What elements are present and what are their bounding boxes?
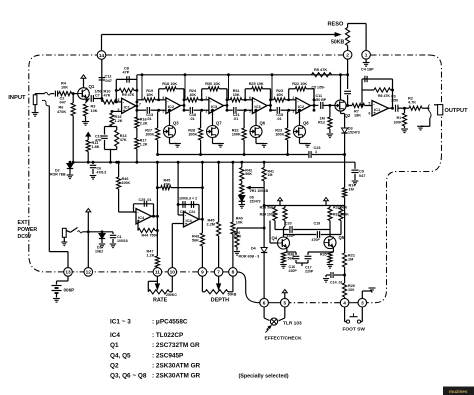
svg-text:220P: 220P — [305, 270, 314, 274]
svg-text:R8 47K: R8 47K — [378, 94, 390, 98]
svg-text:C19: C19 — [314, 222, 321, 226]
svg-text:Q6: Q6 — [260, 120, 266, 125]
svg-text:470P: 470P — [312, 238, 321, 242]
svg-text:14: 14 — [99, 53, 105, 59]
svg-text:DEPTH: DEPTH — [211, 297, 229, 303]
svg-text:R34 100K: R34 100K — [260, 213, 276, 217]
svg-text:2: 2 — [346, 53, 349, 59]
svg-text:3: 3 — [293, 109, 295, 113]
svg-text:Q3: Q3 — [173, 120, 179, 125]
svg-text:1.8K: 1.8K — [92, 145, 100, 149]
svg-text:1M: 1M — [268, 173, 273, 177]
svg-text:12: 12 — [86, 270, 92, 276]
svg-text:3: 3 — [361, 301, 364, 307]
svg-text:EFFECT/CHECK: EFFECT/CHECK — [265, 336, 303, 342]
svg-text:047: 047 — [60, 101, 66, 105]
svg-text:R25 10K: R25 10K — [249, 82, 264, 86]
svg-text:: 2SC732TM GR: : 2SC732TM GR — [152, 342, 200, 349]
svg-text:(Specially selected): (Specially selected) — [239, 374, 289, 380]
svg-text:R18 10K: R18 10K — [162, 82, 177, 86]
svg-text:.01: .01 — [190, 117, 195, 121]
svg-text:FOOT SW: FOOT SW — [343, 327, 366, 333]
svg-text:EXT: EXT — [18, 220, 29, 226]
svg-text:INPUT: INPUT — [8, 95, 26, 101]
svg-text:100K: 100K — [145, 133, 154, 137]
svg-text:47K: 47K — [104, 93, 111, 97]
svg-text:8: 8 — [232, 270, 235, 276]
svg-text:muzines: muzines — [449, 389, 468, 394]
svg-text:47K: 47K — [120, 138, 127, 142]
svg-text:+: + — [123, 108, 126, 113]
svg-text:C7: C7 — [95, 93, 100, 97]
svg-text:R22 10K: R22 10K — [292, 82, 307, 86]
svg-text:R44: R44 — [142, 234, 149, 238]
svg-text:4: 4 — [343, 301, 346, 307]
svg-text:10K: 10K — [91, 109, 98, 113]
svg-text:56K: 56K — [245, 172, 252, 176]
svg-text:10K: 10K — [146, 93, 153, 97]
svg-text:100K: 100K — [122, 181, 131, 185]
svg-text:+: + — [185, 221, 188, 226]
svg-text:10K: 10K — [189, 93, 196, 97]
svg-text:VR1 100KB: VR1 100KB — [250, 189, 269, 193]
svg-text:47K: 47K — [164, 183, 171, 187]
svg-text:1/50 BP: 1/50 BP — [314, 98, 327, 102]
svg-text:2.2K: 2.2K — [140, 121, 148, 125]
svg-text:220P: 220P — [289, 269, 298, 273]
svg-text:IC1 ~ 3: IC1 ~ 3 — [110, 319, 131, 326]
svg-text:Q3, Q6 ~ Q8: Q3, Q6 ~ Q8 — [110, 373, 147, 380]
svg-text:.01: .01 — [277, 117, 282, 121]
svg-text:: 2SC945P: : 2SC945P — [152, 353, 184, 360]
svg-text:ROR 60B - 3: ROR 60B - 3 — [239, 255, 260, 259]
svg-text:R33 100K: R33 100K — [333, 213, 349, 217]
svg-text:Q8: Q8 — [303, 120, 309, 125]
svg-text:Q5: Q5 — [339, 235, 345, 240]
svg-text:10K: 10K — [233, 93, 240, 97]
svg-text:152473: 152473 — [348, 131, 360, 135]
svg-text:IC4: IC4 — [110, 332, 120, 339]
svg-text:6: 6 — [263, 301, 266, 307]
svg-text:ROR 7EB - 3: ROR 7EB - 3 — [50, 173, 71, 177]
svg-text:RATE: RATE — [153, 297, 168, 303]
svg-text:1: 1 — [315, 150, 317, 154]
svg-text:: TL022CP: : TL022CP — [152, 332, 184, 339]
svg-text:C20: C20 — [285, 222, 292, 226]
svg-text:Q2: Q2 — [345, 113, 351, 118]
svg-text:1.2K: 1.2K — [147, 254, 155, 258]
svg-text:18K: 18K — [354, 114, 361, 118]
svg-text:.01: .01 — [233, 117, 238, 121]
svg-text:13: 13 — [65, 270, 71, 276]
svg-text:C23: C23 — [180, 210, 186, 214]
svg-text:R9 47K: R9 47K — [122, 93, 135, 97]
svg-text:10E2: 10E2 — [95, 250, 103, 254]
svg-text:10K: 10K — [61, 86, 68, 90]
svg-text:RESO: RESO — [328, 21, 345, 27]
svg-text:Q2: Q2 — [110, 363, 119, 370]
svg-text:4.7K: 4.7K — [408, 100, 416, 104]
svg-text:7: 7 — [217, 270, 220, 276]
svg-text:.047: .047 — [105, 79, 112, 83]
svg-text:9: 9 — [201, 270, 204, 276]
svg-text:10K: 10K — [236, 220, 243, 224]
svg-text:1/50: 1/50 — [391, 99, 398, 103]
svg-text:R12: R12 — [318, 121, 325, 125]
svg-text:2: 2 — [206, 96, 208, 100]
svg-text:+: + — [373, 110, 376, 115]
svg-text:Q4: Q4 — [272, 236, 278, 241]
svg-text:C24: C24 — [189, 210, 195, 214]
svg-text:R1: R1 — [397, 116, 402, 120]
svg-text:2.2M: 2.2M — [207, 223, 215, 227]
svg-text:047: 047 — [359, 174, 365, 178]
svg-text:5: 5 — [163, 109, 165, 113]
svg-text:Q1: Q1 — [110, 342, 119, 349]
svg-text:3: 3 — [206, 109, 208, 113]
svg-text:Q4, Q5: Q4, Q5 — [110, 353, 131, 360]
svg-text:OUTPUT: OUTPUT — [445, 108, 469, 114]
svg-text:1.2K: 1.2K — [115, 119, 123, 123]
svg-text:5: 5 — [118, 108, 120, 112]
svg-text:C14 .01: C14 .01 — [330, 281, 343, 285]
svg-text:47/6.3: 47/6.3 — [97, 171, 107, 175]
svg-text:Q7: Q7 — [216, 120, 222, 125]
svg-text:50KB: 50KB — [331, 40, 345, 46]
svg-text:C4 18P: C4 18P — [361, 68, 374, 72]
svg-text:1M: 1M — [348, 258, 353, 262]
svg-text:R35: R35 — [320, 253, 327, 257]
svg-text:470K: 470K — [57, 110, 66, 114]
svg-text:7: 7 — [139, 102, 141, 106]
svg-text:1.2K: 1.2K — [140, 142, 148, 146]
svg-text:152473: 152473 — [250, 199, 261, 203]
svg-text:100: 100 — [348, 288, 354, 292]
svg-text:5: 5 — [283, 301, 286, 307]
svg-text:C25 .01: C25 .01 — [139, 198, 152, 202]
svg-text:R5 47K: R5 47K — [314, 67, 327, 72]
svg-text:6: 6 — [249, 96, 251, 100]
svg-text:R37 56K: R37 56K — [333, 206, 348, 210]
svg-text:6: 6 — [118, 98, 120, 102]
svg-text:5: 5 — [369, 102, 371, 106]
svg-text:10K: 10K — [276, 93, 283, 97]
svg-text:11: 11 — [155, 270, 160, 276]
svg-text:: 2SK30ATM GR: : 2SK30ATM GR — [152, 363, 201, 370]
svg-text:TLR 103: TLR 103 — [283, 321, 302, 327]
svg-text:DC9V: DC9V — [18, 234, 32, 240]
svg-text:47P: 47P — [123, 70, 130, 74]
svg-text:6: 6 — [163, 96, 165, 100]
svg-text:R36 56K: R36 56K — [260, 206, 275, 210]
svg-text:100K: 100K — [275, 133, 284, 137]
svg-text:100K: 100K — [188, 133, 197, 137]
svg-text:250KC: 250KC — [166, 293, 177, 297]
svg-text:006P: 006P — [64, 288, 75, 293]
svg-text:R30 10K: R30 10K — [205, 82, 220, 86]
svg-text:Q1: Q1 — [89, 84, 95, 89]
svg-text:POWER: POWER — [18, 227, 38, 233]
svg-text:6: 6 — [369, 112, 371, 116]
svg-text:1: 1 — [365, 53, 368, 59]
svg-text:100/6.3 × 2: 100/6.3 × 2 — [179, 197, 197, 201]
svg-text:: μPC4558C: : μPC4558C — [152, 319, 188, 326]
svg-text:50KB: 50KB — [228, 293, 237, 297]
svg-text:100K: 100K — [232, 133, 241, 137]
svg-text:56K: 56K — [192, 239, 199, 243]
svg-text:: 2SK30ATM GR: : 2SK30ATM GR — [152, 373, 201, 380]
svg-text:100/16: 100/16 — [117, 239, 128, 243]
svg-text:C5 1/50-: C5 1/50- — [312, 86, 326, 90]
svg-text:100K: 100K — [394, 121, 403, 125]
svg-text:.01: .01 — [147, 117, 152, 121]
svg-text:10: 10 — [170, 270, 176, 276]
svg-text:2: 2 — [293, 96, 295, 100]
svg-text:5: 5 — [249, 109, 251, 113]
svg-text:1M: 1M — [349, 188, 354, 192]
